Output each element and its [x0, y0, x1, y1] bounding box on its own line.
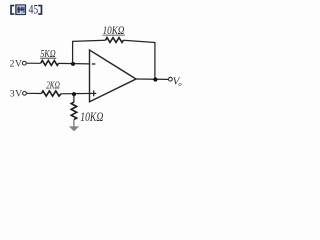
figure caption bracket 】	[38, 5, 42, 15]
resistor R2 10KΩ feedback	[106, 38, 124, 43]
wire feedback right vertical	[154, 42, 156, 80]
non-inverting input plus sign	[93, 90, 95, 96]
input terminal 3V	[23, 91, 27, 95]
figure caption bracket 【	[10, 5, 14, 15]
wire feedback top left segment	[72, 40, 105, 41]
resistor R1 5KΩ	[41, 61, 59, 66]
input terminal 2V	[22, 61, 26, 65]
wire 2V terminal to R1	[26, 62, 41, 64]
op-amp U1	[90, 50, 137, 102]
resistor R3 2KΩ	[41, 91, 61, 96]
inverting input minus sign	[92, 63, 96, 65]
node B junction dot	[72, 92, 76, 96]
wire R1 to op-amp inverting input	[59, 62, 90, 65]
wire op-amp output	[136, 78, 168, 80]
wire feedback left vertical	[72, 41, 74, 64]
figure caption character 圖	[16, 5, 26, 15]
wire 3V terminal to R3	[27, 92, 42, 94]
svg-text:3V: 3V	[10, 88, 23, 99]
svg-text:10KΩ: 10KΩ	[80, 110, 103, 124]
node A junction dot	[71, 62, 75, 66]
resistor R4 10KΩ to ground	[71, 102, 77, 120]
node C output junction dot	[153, 77, 157, 81]
output terminal Vo	[169, 77, 173, 81]
wire R3 to op-amp non-inverting input	[61, 92, 96, 94]
wire feedback top right segment	[124, 40, 155, 42]
svg-text:2KΩ: 2KΩ	[46, 80, 60, 91]
svg-text:45: 45	[29, 2, 39, 16]
wire node B down to R4	[73, 94, 75, 102]
svg-text:2V: 2V	[10, 59, 23, 70]
ground	[69, 120, 79, 132]
